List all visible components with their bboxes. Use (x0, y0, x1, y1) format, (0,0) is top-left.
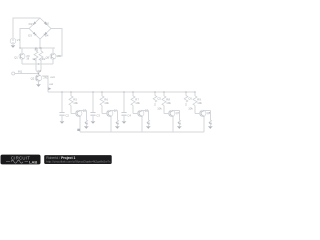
wire Q3 collector right (80, 110, 86, 120)
svg-text:R2: R2 (42, 57, 46, 61)
svg-text:10k: 10k (104, 101, 109, 105)
svg-text:out: out (49, 82, 53, 86)
capacitor C2 (59, 113, 64, 115)
svg-text:Q2: Q2 (31, 76, 35, 80)
ground stage 3 right (146, 125, 150, 127)
svg-text:D1: D1 (29, 22, 33, 26)
stage 4 left resistor C5 (154, 92, 156, 106)
svg-text:http://circuitlab.com/c/9fpvcd: http://circuitlab.com/c/9fpvcd3qwbr4k2ge… (46, 160, 111, 164)
junction dots stage 2 (92, 91, 93, 92)
diode D4 (44, 32, 47, 35)
svg-text:D2: D2 (45, 22, 49, 26)
junction dots stage 4 (154, 91, 155, 92)
svg-text:Q6: Q6 (46, 55, 50, 59)
svg-text:ou1: ou1 (50, 75, 55, 79)
svg-text:10k: 10k (166, 101, 171, 105)
transistor Q6 (50, 53, 56, 59)
wire bridge left corner down to rail (20, 29, 29, 49)
svg-text:10k: 10k (135, 101, 140, 105)
ground stage 2 right (115, 125, 119, 127)
svg-text:CIRCUIT: CIRCUIT (11, 155, 30, 160)
voltage source V1 (10, 38, 16, 44)
diode D3 (33, 32, 36, 35)
wire Q1 collector stub (21, 48, 23, 53)
horizontal rail y48 (20, 47, 55, 49)
wire terminal to Q2 node (15, 73, 39, 75)
svg-text:C3: C3 (96, 113, 100, 117)
junction dots cluster (39, 47, 40, 48)
junction dots stage 3 (123, 91, 124, 92)
wire Q6 emitter down (52, 59, 54, 64)
resistor R6 (102, 92, 106, 113)
wire Q4 collector right (111, 110, 117, 120)
wire Q5 emitter down to bottom bus (141, 116, 143, 132)
R1/R2 legs below rail merging to Q2 (36, 64, 41, 71)
resistor R2 mid-right (40, 48, 42, 64)
diode D2 (44, 21, 47, 24)
resistor stage 2 collector leg (116, 120, 119, 126)
transistor Q3 (76, 110, 82, 116)
capacitor C3 (90, 113, 95, 115)
transistor Q7 (169, 110, 175, 116)
wire cap to ground (123, 115, 125, 121)
resistor stage 1 collector leg (85, 120, 88, 126)
wire bridge right corner down to Q6 (51, 29, 62, 57)
svg-text:Q1: Q1 (14, 55, 18, 59)
resistor R8 (164, 92, 168, 113)
junction dots stage 1 (61, 91, 62, 92)
wire cap to ground (61, 115, 63, 121)
svg-text:IN1: IN1 (18, 70, 23, 74)
svg-text:D4: D4 (45, 33, 49, 37)
wire Q8 emitter down to bottom bus (203, 116, 205, 132)
wire Q5 collector right (142, 110, 148, 120)
net flag on wire (48, 87, 51, 90)
wire Q7 emitter down to bottom bus (172, 116, 174, 132)
ground stage 2 left (91, 120, 95, 122)
capacitor C4 (121, 113, 126, 115)
svg-text:C6: C6 (188, 97, 192, 101)
wire Q6 collector stub (52, 48, 54, 53)
resistor R1 mid-left (35, 48, 37, 64)
lower rail y64 (22, 63, 53, 65)
svg-text:10k: 10k (188, 106, 193, 110)
svg-text:LAB: LAB (29, 159, 37, 164)
stage 3 left wire (123, 92, 125, 112)
resistor stage 4 collector leg (178, 120, 181, 126)
transistor Q2 (35, 75, 41, 81)
stage 2 left wire (92, 92, 94, 112)
wire source top to bridge top (13, 18, 40, 38)
resistor stage 3 collector leg (147, 120, 150, 126)
diode D1 (33, 21, 36, 24)
bridge rectifier diamond (29, 18, 51, 39)
svg-text:C5: C5 (157, 97, 161, 101)
resistor R5 (71, 92, 75, 113)
svg-text:R4: R4 (38, 69, 42, 73)
wire Q2 collector right and down to bus (42, 76, 48, 92)
wire bridge bottom to rail (39, 39, 41, 48)
transistor Q4 (107, 110, 113, 116)
ground stage 1 right (84, 125, 88, 127)
resistor R7 (133, 92, 137, 113)
CircuitLab logo badge (1, 155, 41, 165)
net label at bottom bus left (77, 129, 80, 131)
ground under V1 (12, 44, 14, 45)
svg-text:C4: C4 (127, 113, 131, 117)
caption text box (44, 155, 112, 164)
wire Q1 emitter down (21, 59, 23, 64)
ground stage 4 right (177, 125, 181, 127)
main horizontal bus y92 (48, 91, 195, 93)
wire Q2 emitter down (38, 82, 40, 85)
ground stage 3 left (122, 120, 126, 122)
resistor R9 (195, 92, 199, 113)
wire cap to ground (92, 115, 94, 121)
transistor Q8 (200, 110, 206, 116)
wire Q3 emitter down to bottom bus (79, 116, 81, 132)
stage 5 left resistor C6 (185, 92, 187, 106)
svg-text:10k: 10k (73, 101, 78, 105)
svg-text:10k: 10k (157, 106, 162, 110)
junction dots stage 5 (185, 91, 186, 92)
wire Q7 collector right (173, 110, 179, 120)
svg-text:10k: 10k (197, 101, 202, 105)
ground stage 5 right (208, 125, 212, 127)
wire Q4 emitter down to bottom bus (110, 116, 112, 132)
input terminal (12, 72, 15, 75)
ground stage 1 left (60, 120, 64, 122)
svg-text:R1: R1 (35, 47, 39, 51)
svg-text:D3: D3 (28, 34, 32, 38)
bottom bus y132 (80, 131, 204, 133)
stage 1 left wire (61, 92, 63, 112)
svg-text:2N: 2N (57, 55, 60, 58)
transistor Q1 (19, 53, 25, 59)
resistor stage 5 collector leg (209, 120, 212, 126)
ground under Q2 (36, 83, 40, 85)
transistor Q5 (138, 110, 144, 116)
svg-text:C2: C2 (65, 113, 69, 117)
wire Q8 collector right (204, 110, 210, 120)
